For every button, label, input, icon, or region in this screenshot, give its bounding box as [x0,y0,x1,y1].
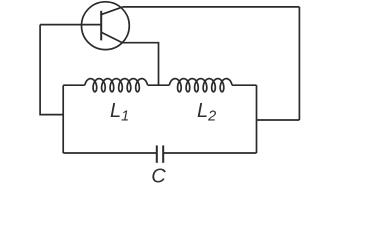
node: coil tap junction [148,84,170,86]
wire: emitter to coil tap [122,43,158,85]
wire: base down-left to tank [40,25,63,115]
inductor L2 [169,79,232,92]
svg-text:C: C [151,166,166,188]
wire: tank left rail [62,85,64,153]
wire: collector to top right [123,6,300,8]
transistor Q1 [82,2,130,50]
wire: bottom right from capacitor [163,152,256,154]
wire: right vertical [298,7,300,120]
wire: tank top left segment [63,84,85,86]
wire: bottom left to capacitor [63,152,157,154]
wire: right connector to tank [257,119,300,121]
svg-text:L1: L1 [110,100,129,125]
svg-text:L2: L2 [197,100,216,125]
wire: tank right rail [256,85,258,153]
capacitor C [157,145,163,162]
inductor L1 [85,79,148,92]
wire: base lead [40,24,101,26]
wire: tank top right segment [232,84,256,86]
